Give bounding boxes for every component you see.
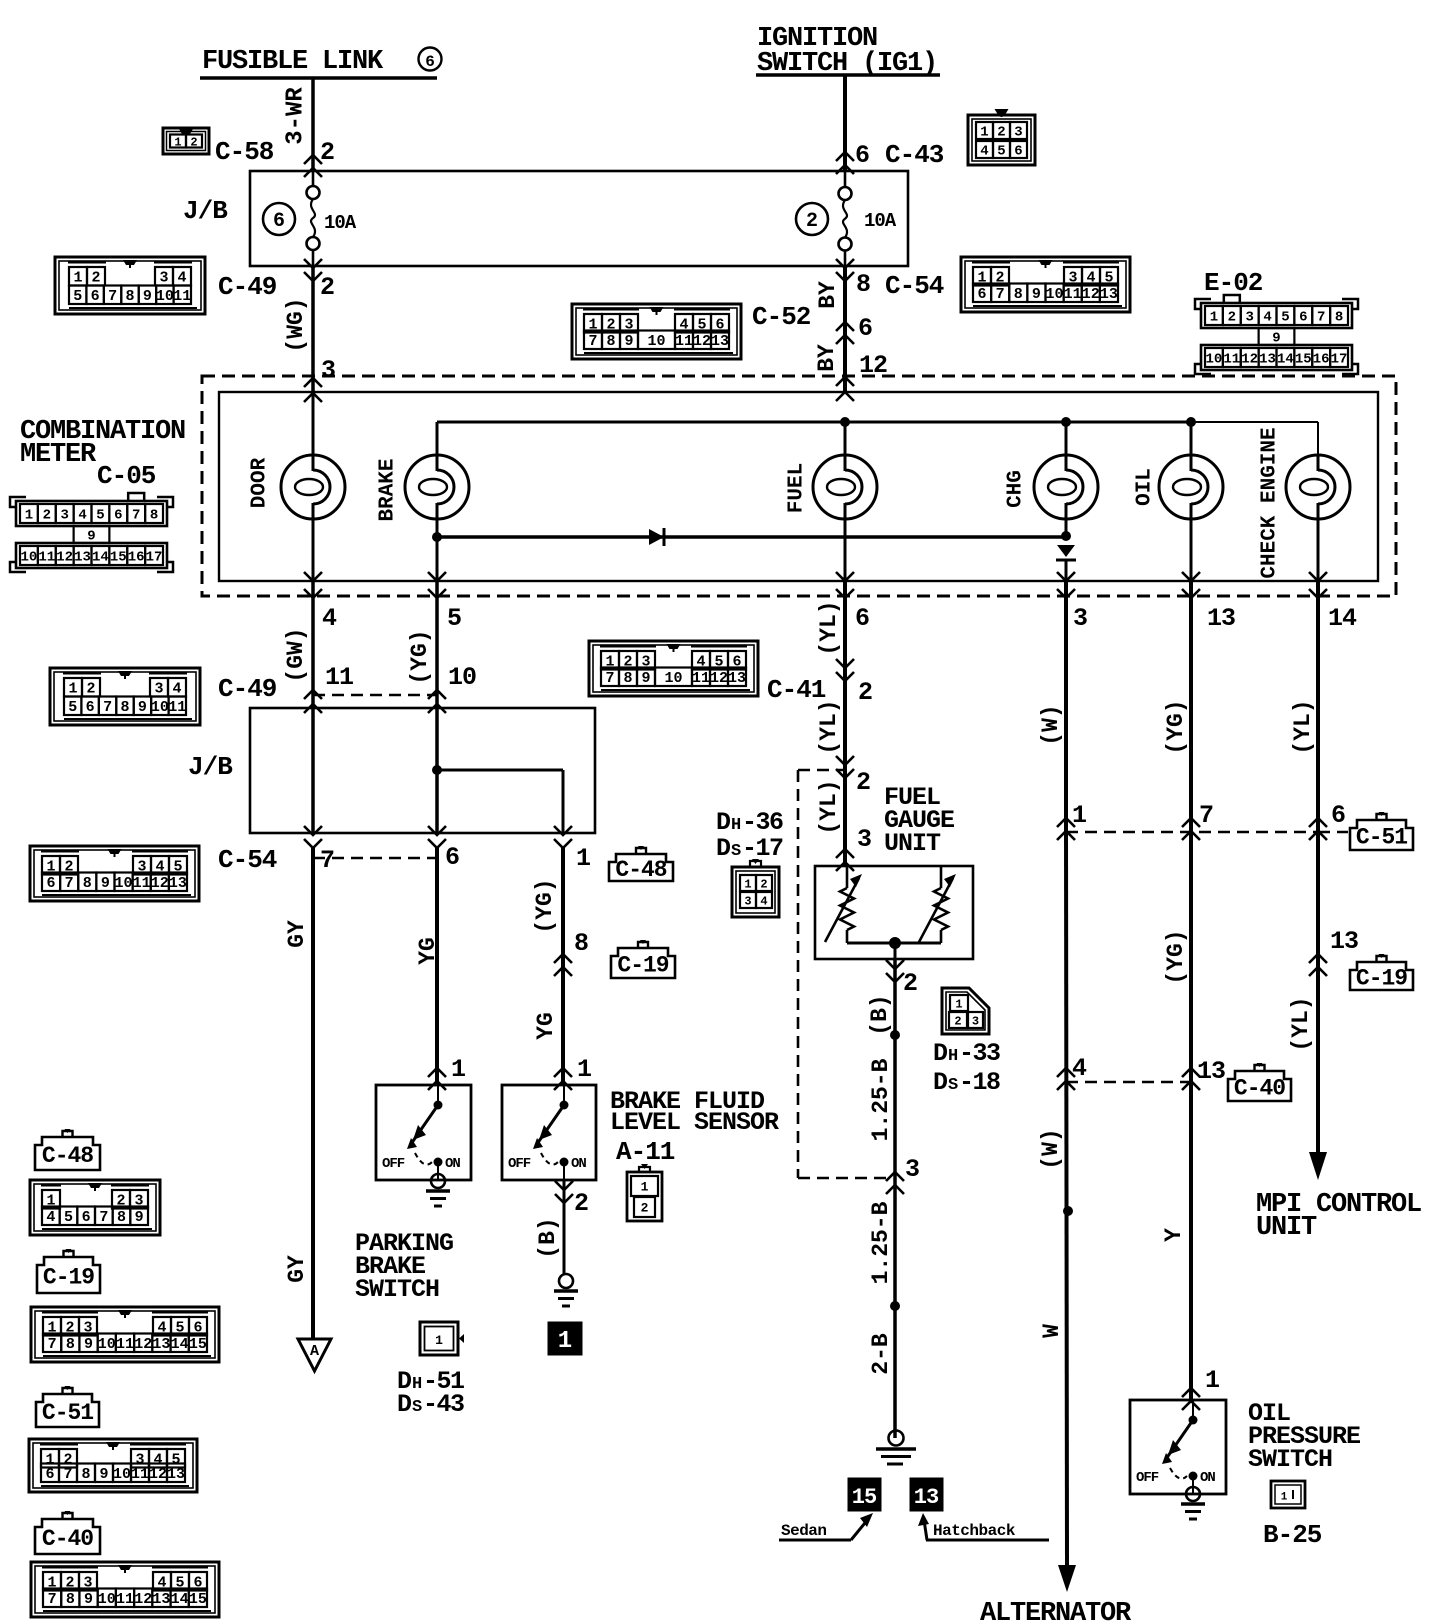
wire (GW) meter pin4 to J/B pin 11 (311, 581, 315, 708)
svg-text:12: 12 (1082, 286, 1100, 303)
svg-text:7: 7 (63, 1466, 72, 1483)
svg-text:6: 6 (425, 53, 435, 71)
svg-text:11: 11 (133, 875, 151, 892)
svg-text:17: 17 (146, 550, 163, 566)
svg-text:10: 10 (647, 333, 665, 350)
svg-text:(YG): (YG) (1163, 699, 1189, 754)
svg-text:C-51: C-51 (1356, 824, 1407, 850)
meter exit pin 3 (1057, 572, 1087, 633)
svg-text:(YG): (YG) (532, 878, 558, 933)
svg-text:-17: -17 (742, 834, 783, 863)
svg-text:9: 9 (143, 288, 152, 305)
svg-text:E-02: E-02 (1204, 268, 1263, 298)
svg-text:6: 6 (1014, 144, 1022, 160)
pin 12 meter entry (836, 351, 887, 401)
wire label (YG) inline (532, 878, 558, 933)
svg-text:10: 10 (21, 550, 38, 566)
fuel gauge bottom wire (847, 943, 941, 959)
svg-text:6: 6 (858, 314, 873, 343)
svg-text:D: D (716, 808, 731, 837)
wire label Y (1161, 1228, 1187, 1242)
svg-text:14: 14 (171, 1336, 189, 1353)
svg-text:13: 13 (169, 875, 187, 892)
svg-text:7: 7 (996, 286, 1005, 303)
brake fluid level switch (502, 1085, 596, 1180)
pin 2 at C-41 crossing (836, 659, 873, 707)
Sedan label with arrow (779, 1513, 873, 1540)
svg-text:3: 3 (154, 681, 163, 698)
wire label (YL) 2 (816, 699, 842, 754)
svg-text:(YL): (YL) (816, 779, 842, 834)
svg-text:8: 8 (1335, 310, 1343, 326)
svg-text:16: 16 (128, 550, 145, 566)
connector C-19 inline right (1350, 954, 1413, 991)
svg-text:H: H (948, 1047, 958, 1066)
wire GY to body ground A (311, 848, 315, 1338)
brake fluid sensor ground (554, 1274, 578, 1306)
fuse 2 10A (796, 171, 897, 266)
svg-text:C-58: C-58 (215, 137, 274, 167)
junction dot FUEL bus (840, 417, 850, 427)
ground ref box 15 sedan (848, 1478, 881, 1511)
wire BY ignition to J/B (843, 76, 847, 171)
svg-text:10: 10 (98, 1591, 116, 1608)
svg-text:8: 8 (856, 270, 871, 299)
svg-text:11: 11 (1223, 352, 1240, 368)
svg-text:5: 5 (1281, 310, 1289, 326)
connector C-54 reference (885, 257, 1130, 312)
svg-text:-18: -18 (959, 1068, 1000, 1097)
wire 3-WR from fusible link to J/B (311, 78, 315, 171)
svg-text:1: 1 (1281, 1492, 1288, 1504)
net FUSIBLE LINK title (200, 47, 442, 78)
diode CHG down (1056, 545, 1076, 581)
svg-text:10A: 10A (864, 210, 897, 232)
svg-text:13: 13 (711, 333, 729, 350)
arrow to alternator (1058, 1565, 1076, 1592)
svg-text:15: 15 (852, 1485, 877, 1510)
svg-text:2: 2 (91, 270, 100, 287)
wire label W (1039, 1324, 1065, 1338)
fuse 6 10A (263, 171, 357, 266)
svg-text:METER: METER (20, 440, 97, 470)
svg-text:1: 1 (980, 125, 988, 141)
svg-text:1: 1 (558, 1328, 572, 1355)
junction dot CHG lower (1061, 531, 1071, 541)
svg-text:B-25: B-25 (1263, 1520, 1322, 1550)
svg-text:11: 11 (173, 288, 191, 305)
svg-text:11: 11 (675, 333, 693, 350)
svg-text:D: D (716, 834, 731, 863)
arrow to MPI control unit (1309, 1152, 1327, 1180)
svg-text:SWITCH: SWITCH (355, 1275, 439, 1304)
connector C-48 pin table (30, 1180, 160, 1235)
svg-text:A-11: A-11 (616, 1137, 675, 1167)
svg-text:1: 1 (576, 844, 591, 873)
svg-text:6: 6 (91, 288, 100, 305)
wire label 1.25-B lower (868, 1201, 894, 1284)
junction block J/B (lower) (188, 708, 595, 833)
svg-text:1: 1 (73, 270, 82, 287)
svg-text:7: 7 (1317, 310, 1325, 326)
connector C-41 (589, 641, 826, 705)
wire label (B) fuel (867, 994, 893, 1035)
svg-text:3: 3 (1014, 125, 1022, 141)
svg-text:11: 11 (1064, 286, 1082, 303)
wire (YL) meter pin6 to fuel gauge (843, 581, 847, 866)
J/B exit pin 7 (304, 826, 335, 875)
junction dot 2-B (890, 1301, 900, 1311)
svg-text:4: 4 (980, 144, 988, 160)
svg-text:12: 12 (151, 875, 169, 892)
svg-text:10: 10 (156, 288, 174, 305)
svg-text:A: A (310, 1343, 319, 1360)
pin 2 at C-49 crossing (304, 259, 335, 302)
svg-text:BY: BY (815, 281, 841, 309)
pin 3 at sensor boundary (886, 1155, 920, 1194)
svg-text:6: 6 (1299, 310, 1307, 326)
connector C-51 pin table (29, 1439, 197, 1492)
svg-text:(GW): (GW) (283, 627, 309, 682)
svg-text:UNIT: UNIT (1256, 1213, 1317, 1243)
lamp FUEL (786, 422, 878, 581)
pin 2 brake fluid switch exit (555, 1181, 589, 1218)
connector E-02 (1195, 268, 1358, 374)
svg-text:1.25-B: 1.25-B (868, 1201, 894, 1284)
svg-text:LEVEL SENSOR: LEVEL SENSOR (610, 1108, 779, 1137)
brake fluid level sensor label (610, 1087, 779, 1137)
svg-text:8: 8 (81, 1466, 90, 1483)
svg-text:C-49: C-49 (218, 674, 277, 704)
ALTERNATOR label (980, 1599, 1132, 1624)
svg-text:ON: ON (1200, 1470, 1215, 1486)
pin 6 at C-51 crossing (1309, 801, 1346, 840)
connector C-52 reference (572, 302, 811, 359)
lamp CHG (1005, 422, 1099, 536)
dashed connector line C-54 (313, 857, 437, 860)
svg-text:4: 4 (78, 508, 86, 524)
svg-text:10: 10 (1046, 286, 1064, 303)
svg-text:3: 3 (159, 270, 168, 287)
connector C-49 reference (55, 257, 277, 314)
svg-text:10: 10 (1206, 352, 1223, 368)
svg-text:H: H (412, 1375, 422, 1394)
wire YG to brake fluid level sensor (561, 848, 565, 1085)
wire label (W) 1 (1038, 704, 1064, 745)
svg-text:2-B: 2-B (868, 1333, 894, 1375)
svg-text:6: 6 (855, 604, 869, 633)
svg-text:5: 5 (997, 144, 1005, 160)
meter exit pin 13 (1182, 572, 1235, 633)
svg-text:(W): (W) (1038, 1128, 1064, 1169)
lamp OIL (1134, 422, 1224, 581)
fuel sender ground (876, 1431, 916, 1465)
svg-text:13: 13 (914, 1485, 939, 1510)
svg-text:C-19: C-19 (43, 1264, 94, 1290)
svg-text:3: 3 (972, 1014, 979, 1028)
svg-text:1: 1 (955, 997, 962, 1011)
pin 7 at C-51 crossing (1182, 801, 1214, 840)
svg-text:SWITCH: SWITCH (1248, 1445, 1332, 1474)
svg-text:J/B: J/B (188, 752, 233, 782)
parking brake switch ground (426, 1174, 450, 1206)
svg-text:-36: -36 (742, 808, 783, 837)
svg-text:7: 7 (1199, 801, 1214, 830)
svg-text:4: 4 (177, 270, 186, 287)
svg-text:(WG): (WG) (283, 297, 309, 352)
svg-text:7: 7 (48, 1336, 57, 1353)
svg-text:14: 14 (92, 550, 109, 566)
meter exit pin 14 (1309, 572, 1357, 633)
svg-text:D: D (933, 1068, 948, 1097)
svg-text:2: 2 (320, 273, 335, 302)
svg-text:8: 8 (120, 699, 129, 716)
svg-text:(B): (B) (867, 994, 893, 1035)
svg-text:C-43: C-43 (885, 140, 944, 170)
svg-text:Y: Y (1161, 1228, 1187, 1242)
svg-text:7: 7 (320, 846, 335, 875)
wire label (W) 2 (1038, 1128, 1064, 1169)
wire BY pin 8 to meter pin 12 (843, 266, 847, 392)
svg-text:13: 13 (1330, 927, 1358, 956)
lamp CHECK ENGINE (1259, 427, 1351, 581)
svg-text:-43: -43 (423, 1390, 464, 1419)
svg-text:3: 3 (744, 894, 751, 908)
svg-text:4: 4 (172, 681, 181, 698)
oil pressure switch ground (1181, 1487, 1205, 1519)
svg-text:9: 9 (84, 1591, 93, 1608)
pin 8 at C-19 crossing (554, 929, 589, 976)
svg-text:9: 9 (101, 875, 110, 892)
svg-text:BRAKE: BRAKE (377, 458, 400, 521)
svg-text:7: 7 (132, 508, 140, 524)
svg-text:H: H (731, 816, 741, 835)
meter lower bus wire with diode (437, 535, 1066, 539)
svg-text:4: 4 (46, 1209, 55, 1226)
svg-text:10: 10 (115, 875, 133, 892)
svg-text:(YG): (YG) (407, 629, 433, 684)
diode in meter bus (649, 528, 664, 546)
svg-text:GY: GY (284, 1255, 310, 1283)
junction dot fuel gauge (889, 937, 901, 949)
svg-text:D: D (933, 1039, 948, 1068)
svg-text:(YL): (YL) (1290, 699, 1316, 754)
wire label BY lower (814, 344, 840, 372)
wire (YG) meter pin13 to oil pressure switch (1189, 581, 1193, 1400)
wire (B) brake fluid switch to ground (563, 1180, 566, 1274)
connector C-48 inline (609, 846, 673, 883)
pin 8 at C-54 crossing (836, 259, 871, 299)
svg-text:C-51: C-51 (42, 1400, 93, 1426)
svg-text:4: 4 (1263, 310, 1271, 326)
svg-text:2: 2 (641, 1201, 649, 1216)
wire label (YG) (407, 629, 433, 684)
svg-text:C-19: C-19 (1356, 965, 1407, 991)
pin 2 fuel gauge dashed boundary (836, 756, 871, 797)
meter exit pin 6 (836, 572, 869, 633)
svg-text:C-05: C-05 (97, 461, 156, 491)
svg-text:14: 14 (1328, 604, 1357, 633)
svg-text:15: 15 (1295, 352, 1312, 368)
J/B exit pin 6 (428, 826, 460, 872)
svg-text:11: 11 (116, 1591, 134, 1608)
combination meter dashed outline (202, 376, 1396, 596)
svg-text:11: 11 (692, 670, 710, 687)
svg-text:6: 6 (82, 1209, 91, 1226)
svg-text:FUEL: FUEL (786, 463, 809, 513)
fuel gauge unit label (884, 783, 954, 858)
svg-text:8: 8 (83, 875, 92, 892)
svg-text:(W): (W) (1038, 704, 1064, 745)
svg-text:10: 10 (151, 699, 169, 716)
svg-text:7: 7 (588, 333, 597, 350)
svg-text:C-52: C-52 (752, 302, 811, 332)
connector C-49 reference lower (50, 668, 277, 725)
svg-text:15: 15 (110, 550, 127, 566)
svg-text:13: 13 (1259, 352, 1276, 368)
wire label (YL) 3 (816, 779, 842, 834)
svg-text:11: 11 (116, 1336, 134, 1353)
wire label YG inline (533, 1012, 559, 1040)
svg-text:7: 7 (99, 1209, 108, 1226)
dashed connector line C-49 (313, 694, 437, 697)
svg-text:(YG): (YG) (1163, 929, 1189, 984)
pin 11 at C-49 crossing (304, 663, 353, 713)
svg-text:11: 11 (325, 663, 353, 692)
connector C-54 reference lower (30, 845, 277, 901)
svg-text:3: 3 (857, 825, 872, 854)
svg-text:5: 5 (73, 288, 82, 305)
svg-text:16: 16 (1313, 352, 1330, 368)
wire label (WG) (283, 297, 309, 352)
svg-text:C-54: C-54 (218, 845, 277, 875)
combination meter label (20, 417, 185, 470)
pin 3 meter entry (304, 356, 336, 402)
svg-text:1: 1 (744, 877, 751, 891)
wire (YL) meter pin14 to MPI control unit (1316, 581, 1320, 1152)
wire label GY upper (284, 920, 310, 948)
svg-text:11: 11 (168, 699, 186, 716)
wire label 2-B (868, 1333, 894, 1375)
wire label (B) (535, 1217, 561, 1258)
svg-text:2: 2 (760, 877, 767, 891)
junction dot W wire (1063, 1206, 1073, 1216)
svg-text:8: 8 (66, 1591, 75, 1608)
svg-text:2: 2 (190, 135, 197, 149)
svg-text:Hatchback: Hatchback (933, 1522, 1016, 1540)
svg-text:2: 2 (856, 768, 871, 797)
wire B fuel gauge to ground (893, 959, 897, 1438)
svg-text:13: 13 (1197, 1057, 1225, 1086)
svg-text:11: 11 (131, 1466, 149, 1483)
svg-text:3: 3 (1073, 604, 1087, 633)
svg-text:J/B: J/B (183, 196, 228, 226)
junction block J/B (upper) (183, 171, 908, 266)
svg-text:9: 9 (84, 1336, 93, 1353)
svg-text:14: 14 (1277, 352, 1294, 368)
svg-text:(YL): (YL) (816, 699, 842, 754)
svg-text:C-19: C-19 (617, 952, 668, 978)
connector C-40 reference left (35, 1511, 100, 1554)
svg-text:12: 12 (134, 1336, 152, 1353)
pin 6 and connector C-43 label (836, 140, 944, 174)
svg-text:S: S (731, 842, 741, 861)
connector DH-36 DS-17 (716, 808, 783, 917)
svg-text:5: 5 (68, 699, 77, 716)
wire label (YL) ce 2 (1288, 996, 1314, 1051)
wire (YG) meter pin5 to J/B pin 10 (435, 581, 439, 708)
svg-text:13: 13 (1207, 604, 1235, 633)
svg-text:6: 6 (45, 1466, 54, 1483)
svg-text:6: 6 (1331, 801, 1346, 830)
wire label 3-WR (283, 87, 310, 145)
Hatchback label with arrow (918, 1513, 1049, 1540)
svg-text:13: 13 (74, 550, 91, 566)
svg-text:4: 4 (322, 604, 337, 633)
connector B-25 (1263, 1481, 1322, 1550)
oil pressure switch label (1248, 1399, 1360, 1474)
svg-text:-33: -33 (959, 1039, 1000, 1068)
svg-text:13: 13 (152, 1336, 170, 1353)
svg-text:8: 8 (1014, 286, 1023, 303)
dashed connector line C-51 (1066, 831, 1348, 834)
svg-text:13: 13 (728, 670, 746, 687)
junction dot OIL bus (1186, 417, 1196, 427)
svg-text:C-48: C-48 (615, 857, 666, 883)
svg-text:9: 9 (1032, 286, 1041, 303)
svg-text:1: 1 (1205, 1366, 1220, 1395)
svg-text:3: 3 (905, 1155, 920, 1184)
svg-text:5: 5 (447, 604, 461, 633)
dashed connector line C-40 (1066, 1081, 1191, 1084)
svg-text:OFF: OFF (1136, 1470, 1159, 1486)
wire label BY upper (815, 281, 841, 309)
wire label (YL) 1 (816, 600, 842, 655)
svg-text:10A: 10A (324, 212, 357, 234)
wire through J/B x=437 with branch (437, 708, 563, 833)
svg-text:3: 3 (321, 356, 336, 385)
svg-text:6: 6 (47, 875, 56, 892)
junction dot BRAKE lower (432, 532, 442, 542)
svg-text:8: 8 (117, 1209, 126, 1226)
wire (W) meter pin3 to alternator (1066, 581, 1067, 1565)
svg-text:15: 15 (189, 1336, 207, 1353)
MPI CONTROL UNIT label (1256, 1190, 1421, 1243)
svg-text:14: 14 (171, 1591, 189, 1608)
svg-text:UNIT: UNIT (884, 829, 941, 858)
svg-text:15: 15 (189, 1591, 207, 1608)
svg-text:(YL): (YL) (816, 600, 842, 655)
junction dot J/B branch (432, 765, 442, 775)
connector C-58 (163, 128, 274, 167)
svg-text:C-54: C-54 (885, 271, 944, 301)
svg-text:ON: ON (445, 1156, 460, 1172)
lamp BRAKE (377, 455, 470, 581)
svg-text:10: 10 (113, 1466, 131, 1483)
svg-text:11: 11 (38, 550, 55, 566)
svg-text:CHG: CHG (1005, 470, 1028, 508)
connector C-51 reference left (36, 1386, 99, 1427)
svg-text:10: 10 (664, 670, 682, 687)
J/B exit pin 1 (554, 826, 591, 873)
connector C-40 pin table (31, 1562, 219, 1617)
wire label (GW) (283, 627, 309, 682)
pin 1 brake fluid switch (554, 1055, 592, 1090)
pin 13 at C-40 crossing (1182, 1057, 1225, 1090)
svg-text:ALTERNATOR: ALTERNATOR (980, 1599, 1132, 1624)
svg-text:4: 4 (1072, 1054, 1087, 1083)
wire label (YL) ce 1 (1290, 699, 1316, 754)
